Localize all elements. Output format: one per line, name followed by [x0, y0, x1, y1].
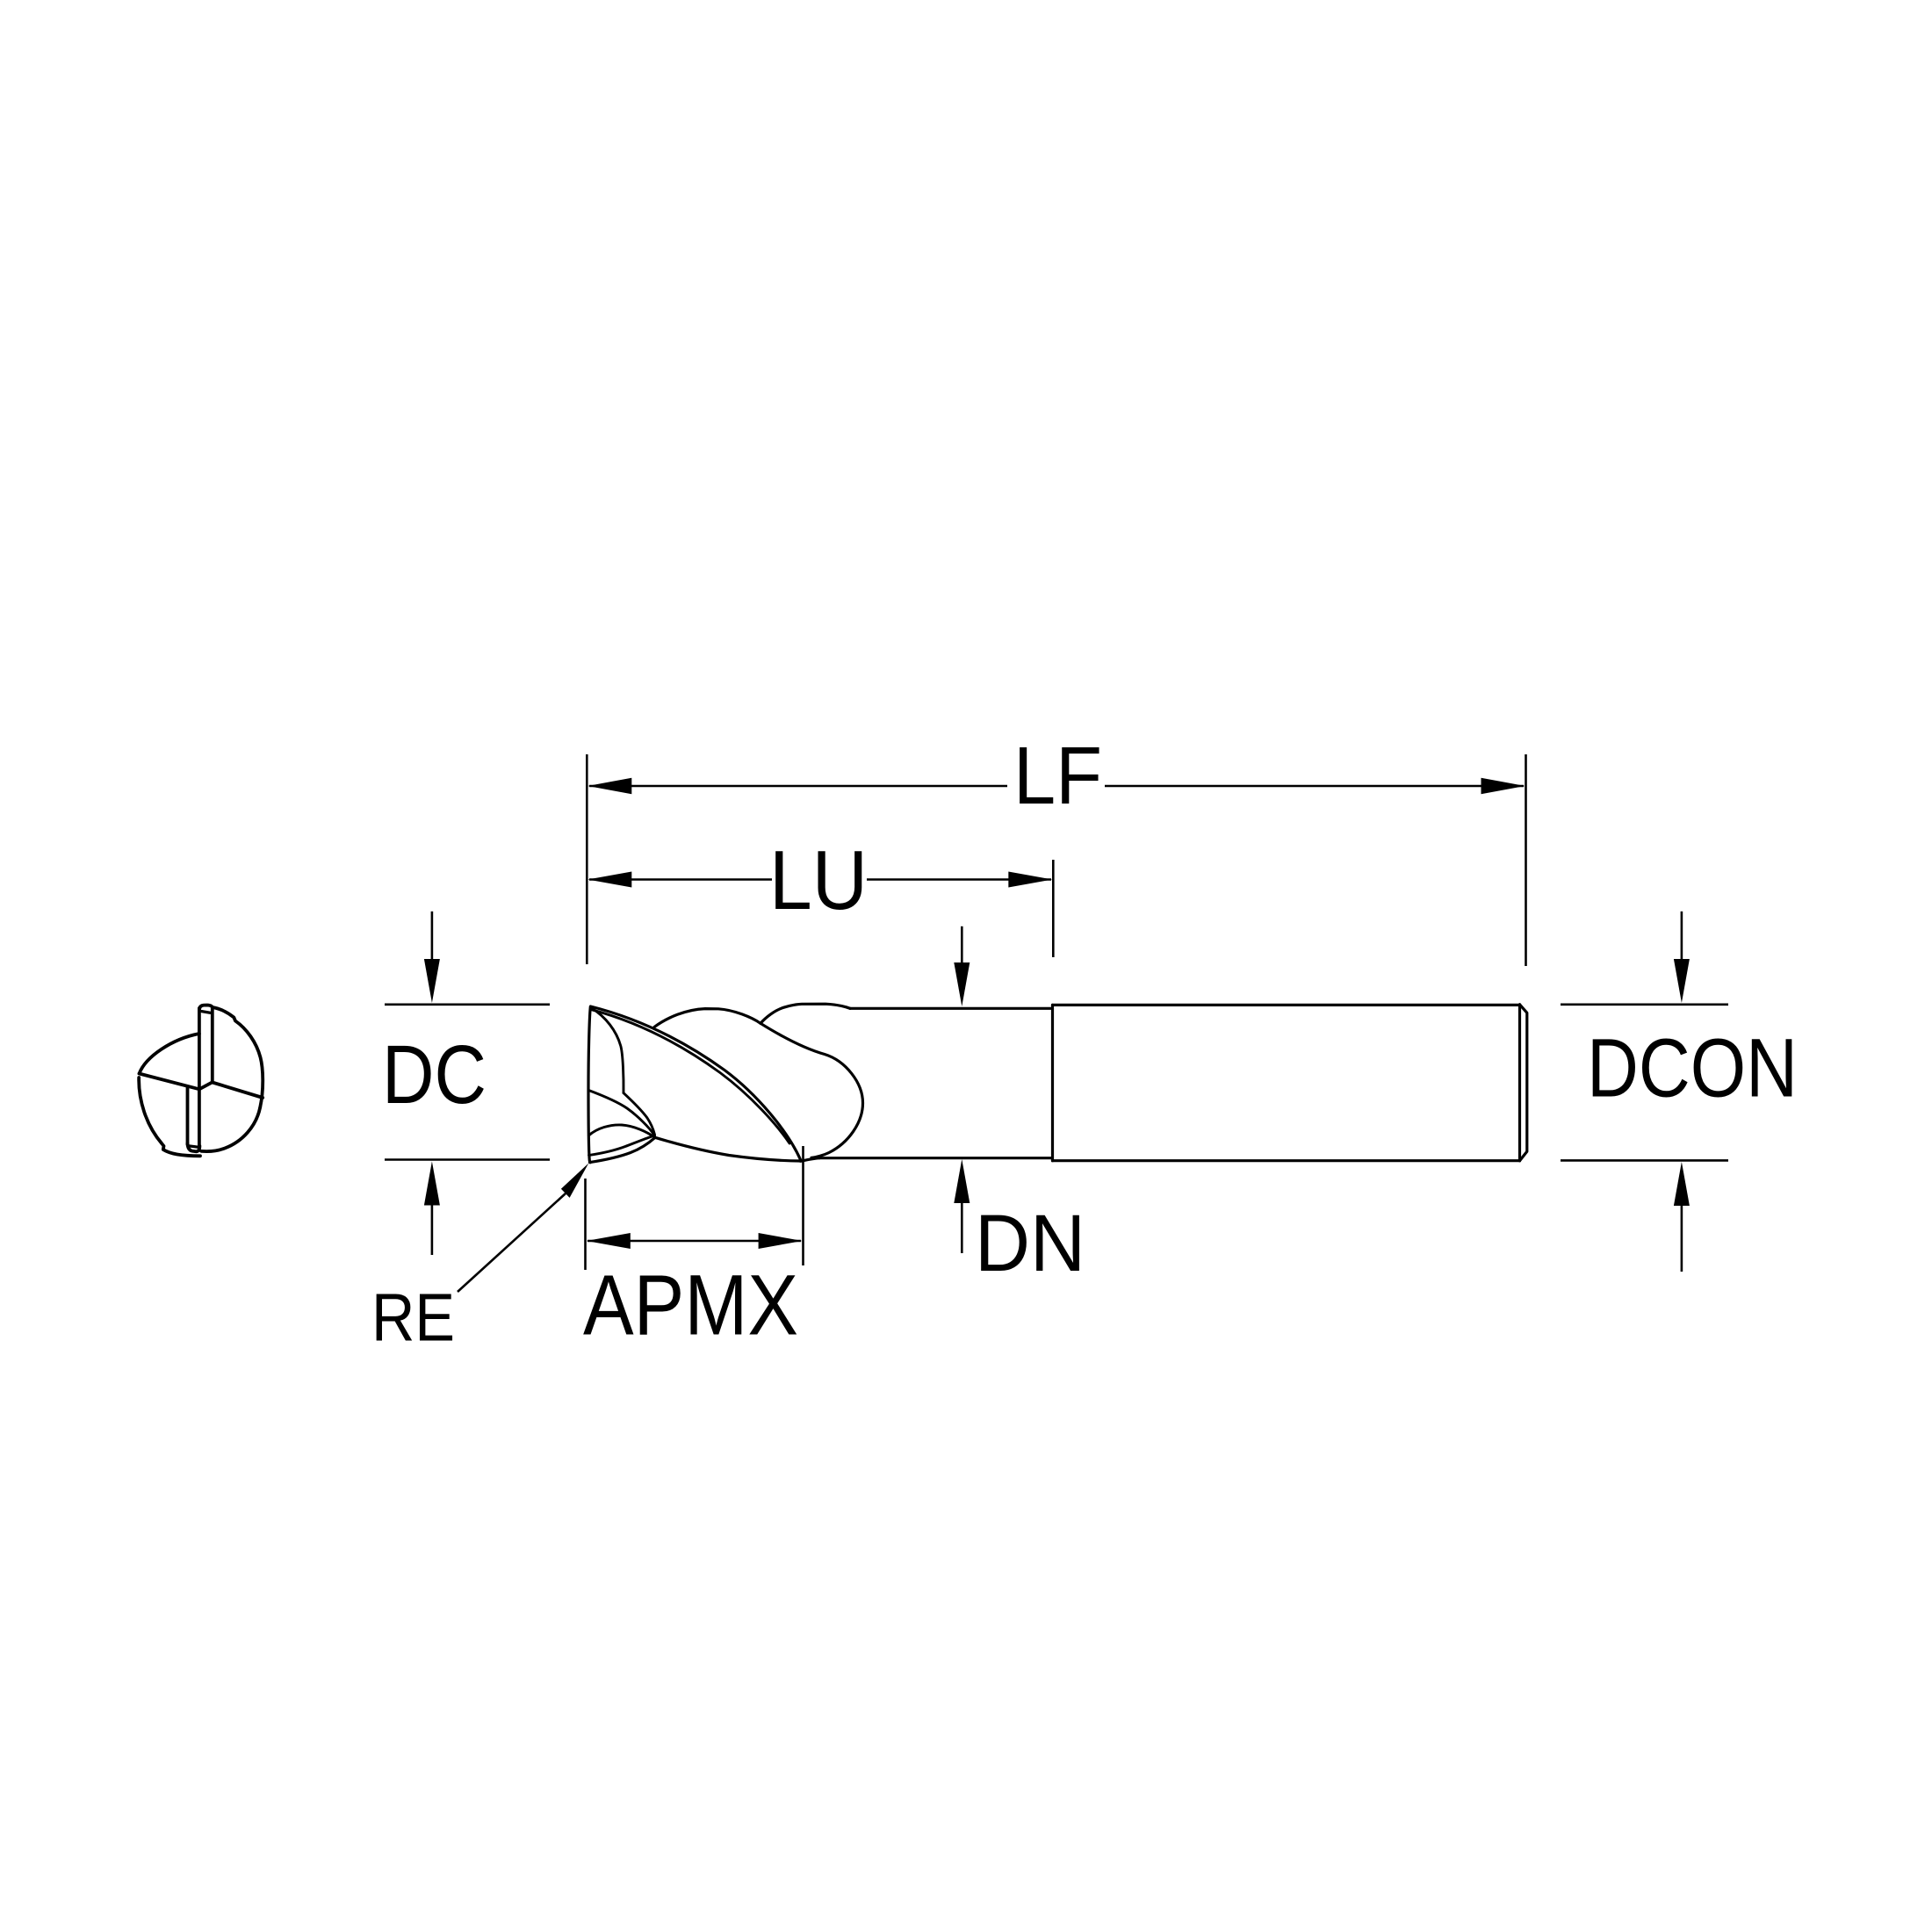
DC extension line bottom	[385, 1158, 550, 1161]
flute internal line L2	[624, 1093, 655, 1135]
DC extension line top	[385, 1004, 550, 1006]
gash lower outer arc	[590, 1137, 656, 1162]
DC arrow down shaft	[431, 912, 434, 960]
gash upper arc	[588, 1125, 655, 1137]
svg-text:DN: DN	[975, 1199, 1085, 1288]
flute left end face edge	[588, 1007, 590, 1163]
end view slot upper right edge	[211, 1007, 214, 1083]
LU arrowhead left	[588, 872, 631, 888]
LU extension line right	[1052, 860, 1055, 957]
LF dimension line	[589, 785, 1524, 788]
RE leader arrowhead	[561, 1164, 588, 1198]
end view right radial cutting edge	[213, 1083, 263, 1099]
svg-text:LU: LU	[769, 833, 868, 927]
svg-text:RE: RE	[371, 1280, 455, 1356]
end view slot long vertical edge	[198, 1008, 201, 1150]
end view slot top cap	[199, 1006, 213, 1011]
flute internal face line C1	[591, 1008, 624, 1093]
helix cutting edge upper line	[591, 1006, 801, 1160]
DCON arrowhead down	[1674, 959, 1690, 1003]
end view upper-right arc	[213, 1007, 263, 1107]
end view slot bottom cap	[188, 1143, 200, 1151]
APMX dimension line	[588, 1240, 801, 1243]
DC arrowhead down	[424, 959, 440, 1003]
DN arrowhead down	[954, 962, 970, 1006]
LF arrowhead right	[1481, 778, 1525, 795]
flute hump 1 outline	[654, 1009, 761, 1027]
gash lower inner arc	[589, 1136, 653, 1156]
RE leader line	[458, 1193, 566, 1292]
LU dimension line	[589, 878, 1051, 881]
DCON extension line top	[1561, 1004, 1728, 1006]
APMX arrowhead right	[759, 1233, 803, 1249]
DN arrow down shaft	[961, 926, 963, 975]
DC arrowhead up	[424, 1162, 440, 1206]
shank bottom edge	[1053, 1159, 1520, 1162]
flute hump 2 outline and plateau	[761, 1004, 850, 1023]
shank top edge	[1053, 1004, 1520, 1006]
LF arrowhead left	[588, 778, 631, 795]
neck top edge	[850, 1007, 1051, 1010]
end view slot center step	[199, 1082, 213, 1089]
flute internal line L1	[588, 1091, 654, 1136]
end view slot top cap inner line	[202, 1012, 210, 1013]
flute-2 face S-curve into neck	[761, 1023, 863, 1157]
APMX arrowhead left	[587, 1233, 631, 1249]
flute bottom silhouette	[655, 1137, 801, 1161]
svg-text:LF: LF	[1013, 730, 1102, 821]
DC arrow up shaft	[431, 1206, 434, 1256]
DCON extension line bottom	[1561, 1159, 1728, 1162]
end view upper-left arc	[140, 1034, 199, 1074]
end view slot lower left edge	[186, 1087, 190, 1144]
LU arrowhead right	[1008, 872, 1052, 888]
shank end chamfer outline	[1520, 1005, 1527, 1161]
helix cutting edge lower line	[592, 1010, 789, 1143]
end view slot bottom cap inner line	[188, 1146, 198, 1148]
DCON arrow up shaft	[1681, 1206, 1683, 1272]
LF extension line right	[1525, 754, 1527, 966]
end view left radial cutting edge	[140, 1074, 200, 1090]
DCON arrow down shaft	[1681, 912, 1683, 960]
end view lower-right arc	[202, 1107, 261, 1151]
flute bottom transition to neck	[801, 1158, 820, 1162]
svg-text:DCON: DCON	[1587, 1022, 1798, 1115]
DN arrowhead up	[954, 1159, 970, 1203]
neck bottom edge	[819, 1157, 1051, 1159]
svg-text:APMX: APMX	[583, 1257, 798, 1352]
end view lower-left arc	[139, 1078, 200, 1156]
DN arrow up shaft	[961, 1203, 963, 1253]
DCON arrowhead up	[1674, 1162, 1690, 1206]
shank step vertical edge	[1051, 1005, 1054, 1160]
LF extension line left	[586, 754, 588, 964]
shank right end edge	[1518, 1005, 1521, 1161]
APMX extension line right	[802, 1146, 804, 1265]
APMX extension line left	[584, 1179, 587, 1270]
svg-text:DC: DC	[382, 1028, 487, 1121]
